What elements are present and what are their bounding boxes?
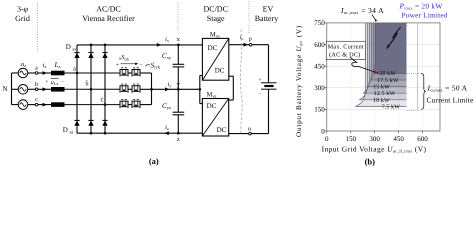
svg-text:10 kW: 10 kW	[373, 97, 390, 104]
svg-text:ua: ua	[21, 61, 26, 68]
svg-text:Vienna Rectifier: Vienna Rectifier	[82, 14, 135, 23]
svg-text:300: 300	[314, 84, 325, 92]
svg-text:0: 0	[325, 135, 329, 143]
svg-text:600: 600	[314, 41, 325, 49]
svg-text:uLa: uLa	[51, 80, 59, 86]
svg-text:Myz: Myz	[207, 91, 217, 98]
svg-text:15 kW: 15 kW	[373, 84, 390, 91]
svg-text:Battery: Battery	[255, 14, 279, 23]
svg-text:EV: EV	[263, 5, 274, 14]
svg-text:750: 750	[314, 19, 325, 27]
svg-text:+: +	[45, 80, 48, 85]
svg-text:+: +	[116, 63, 119, 69]
svg-text:a: a	[35, 66, 38, 72]
svg-text:D: D	[63, 126, 68, 134]
svg-text:0: 0	[321, 127, 325, 135]
svg-text:c: c	[35, 97, 38, 103]
svg-text:DC: DC	[217, 126, 227, 134]
svg-text:Stage: Stage	[207, 14, 225, 23]
svg-text:p: p	[249, 36, 252, 42]
svg-text:600: 600	[417, 135, 428, 143]
svg-text:−: −	[61, 80, 64, 85]
svg-text:DC: DC	[207, 102, 217, 110]
svg-text:Max. Current: Max. Current	[328, 43, 364, 50]
svg-text:N: N	[2, 85, 7, 93]
svg-text:−: −	[139, 63, 142, 69]
svg-text:(AC & DC): (AC & DC)	[329, 51, 360, 58]
svg-text:b: b	[35, 81, 38, 88]
svg-text:ia: ia	[43, 62, 47, 69]
svg-text:Power Limited: Power Limited	[402, 11, 448, 20]
svg-text:AC/DC: AC/DC	[96, 5, 120, 14]
svg-text:150: 150	[345, 135, 356, 143]
svg-text:7.5 kW: 7.5 kW	[382, 103, 401, 110]
svg-text:(a): (a)	[149, 156, 159, 166]
svg-text:ā: ā	[73, 67, 76, 73]
svg-text:zā: zā	[69, 130, 73, 135]
svg-text:Mxy: Mxy	[210, 32, 221, 39]
svg-text:450: 450	[314, 62, 325, 70]
svg-text:300: 300	[369, 135, 380, 143]
svg-text:3-φ: 3-φ	[17, 5, 29, 14]
svg-text:Grid: Grid	[15, 14, 30, 23]
svg-text:c̄: c̄	[101, 97, 104, 103]
svg-text:DC: DC	[215, 67, 225, 75]
svg-text:Current Limited: Current Limited	[427, 95, 474, 104]
svg-text:DC/DC: DC/DC	[203, 5, 227, 14]
svg-text:iz: iz	[165, 124, 169, 131]
svg-text:17.5 kW: 17.5 kW	[377, 77, 399, 84]
svg-text:D: D	[66, 43, 71, 51]
svg-text:n: n	[248, 126, 251, 132]
svg-text:(b): (b)	[365, 156, 376, 166]
svg-text:z: z	[177, 136, 180, 143]
svg-text:12.5 kW: 12.5 kW	[374, 90, 396, 97]
svg-text:+: +	[259, 78, 262, 83]
svg-text:20 kW: 20 kW	[379, 70, 396, 77]
svg-text:b̄: b̄	[86, 80, 89, 87]
svg-text:DC: DC	[208, 44, 218, 52]
svg-text:450: 450	[393, 135, 404, 143]
svg-text:−: −	[259, 92, 262, 97]
svg-text:150: 150	[314, 106, 325, 114]
